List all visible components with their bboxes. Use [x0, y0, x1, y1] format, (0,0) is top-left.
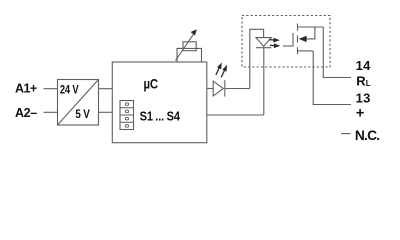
MOSFET Q1 body branch	[301, 27, 315, 39]
wire D2 cathode return drop	[263, 48, 265, 115]
MOSFET Q1 gate bar	[292, 33, 294, 47]
wire N.C. stub	[341, 133, 351, 135]
wire MOSFET gate lead	[283, 45, 293, 47]
svg-text:A2–: A2–	[15, 106, 37, 120]
svg-text:+: +	[356, 106, 364, 122]
LED D1 light arrow 1	[216, 62, 222, 75]
wire return to uC box	[207, 114, 264, 116]
wire source drop to terminal 13	[313, 51, 351, 105]
wire A1+ terminal to DC-DC	[44, 88, 58, 90]
svg-text:L: L	[366, 79, 371, 88]
potentiometer R1 arrow head	[191, 29, 197, 35]
wire U1 to uC box lower	[99, 111, 113, 113]
optocoupler K1 dashed enclosure	[242, 16, 330, 68]
microcontroller U2 box	[112, 62, 207, 143]
MOSFET Q1 source lead	[298, 50, 314, 52]
MOSFET Q1 body arrow head	[299, 36, 307, 42]
svg-text:N.C.: N.C.	[355, 128, 380, 143]
potentiometer R1 arrow shaft	[176, 33, 195, 60]
wire A2- terminal to DC-DC	[44, 111, 58, 113]
svg-text:µC: µC	[143, 77, 158, 92]
DIP switch actuator dots	[125, 103, 128, 106]
wire uC to LED D1	[207, 88, 213, 90]
svg-text:A1+: A1+	[15, 81, 37, 95]
opto coupling arrow 2	[270, 43, 281, 48]
svg-text:S4: S4	[167, 108, 181, 123]
LED D1 light arrow 2	[221, 65, 227, 78]
svg-text:14: 14	[356, 58, 371, 73]
svg-text:5 V: 5 V	[75, 108, 90, 121]
svg-text:13: 13	[356, 91, 371, 106]
LED D1 cathode bar	[224, 80, 226, 96]
LED D1 triangle	[213, 81, 223, 96]
opto coupling arrow 1	[269, 38, 280, 43]
svg-text:...: ...	[155, 108, 164, 123]
potentiometer R1 body	[183, 42, 196, 51]
opto LED D2 cathode bar	[256, 47, 271, 49]
wire drain drop to terminal 14	[323, 27, 351, 78]
opto LED D2 triangle	[256, 38, 271, 47]
DIP switch dividers	[120, 108, 134, 123]
svg-text:24 V: 24 V	[60, 83, 79, 96]
converter diagonal	[58, 80, 99, 126]
svg-text:R: R	[356, 73, 366, 88]
MOSFET Q1 drain lead	[298, 26, 324, 28]
potentiometer R1 pedestal	[177, 48, 202, 62]
wire D1 to optocoupler riser	[225, 88, 250, 90]
wire U1 to uC box upper	[99, 88, 113, 90]
wire riser to opto anode	[250, 29, 264, 88]
MOSFET Q1 channel segments	[297, 24, 299, 55]
DIP switch S1-S4 body	[120, 101, 134, 130]
svg-text:S1: S1	[140, 108, 154, 123]
power supply converter U1 box	[58, 80, 99, 126]
